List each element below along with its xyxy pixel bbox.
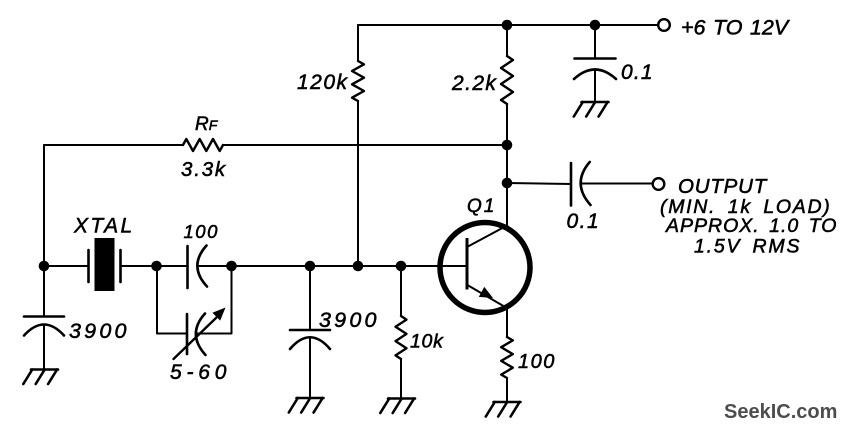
- wire: 3900 (mid) cap to ground: [309, 339, 311, 399]
- svg-text:2.2k: 2.2k: [451, 72, 497, 95]
- svg-text:3900: 3900: [319, 308, 380, 332]
- svg-text:5-60: 5-60: [170, 361, 231, 384]
- resistor 10k: [396, 316, 407, 359]
- junction dot: rail/2.2k: [502, 20, 513, 31]
- svg-text:APPROX. 1.0 TO: APPROX. 1.0 TO: [665, 215, 837, 237]
- wire: 10k to ground: [400, 359, 402, 399]
- wire: RF feedback left segment: [44, 144, 183, 146]
- junction dot: 10k node: [396, 261, 407, 272]
- crystal XTAL: [89, 238, 121, 291]
- wire: XTAL to node: [121, 265, 157, 267]
- transistor Q1 base bar: [466, 238, 469, 290]
- wire: 100 to ground: [506, 378, 508, 402]
- svg-text:0.1: 0.1: [567, 210, 601, 233]
- wire: 2.2k branch top: [506, 25, 508, 56]
- junction dot: output tee: [502, 178, 513, 189]
- wire: bypass cap to ground: [594, 69, 596, 102]
- svg-text:XTAL: XTAL: [73, 215, 135, 238]
- wire: 5-60 loop bottom-right and right: [197, 266, 232, 334]
- wire: left vertical from RF to crystal node: [43, 145, 45, 266]
- ground (10k): [380, 399, 415, 414]
- wire: 3900 (left) cap branch: [43, 266, 45, 316]
- capacitor 3900 (mid): [290, 330, 330, 349]
- resistor RF 3.3k: [183, 139, 223, 151]
- transistor Q1 collector line: [467, 225, 508, 247]
- svg-text:3900: 3900: [69, 319, 130, 343]
- svg-text:RF: RF: [195, 114, 219, 135]
- junction dot: crystal right node: [151, 261, 162, 272]
- transistor Q1 emitter arrow: [479, 287, 493, 298]
- transistor Q1 circle: [440, 223, 530, 313]
- wire: 5-60 loop left and bottom-left: [157, 266, 187, 334]
- svg-text:1.5V RMS: 1.5V RMS: [694, 236, 801, 258]
- svg-text:0.1: 0.1: [621, 61, 654, 84]
- resistor 2.2k: [501, 56, 513, 104]
- wire: node to C 100: [157, 265, 188, 267]
- wire: coupling cap to output terminal: [581, 183, 652, 185]
- wire: 120k branch bottom (crosses RF wire, down to base node): [357, 101, 359, 266]
- wire: 3900 (left) cap to ground: [43, 326, 45, 370]
- terminal +V: [658, 19, 670, 31]
- wire: 120k branch top: [357, 25, 359, 61]
- wire: collector node to output node: [506, 145, 508, 183]
- ground (3900 left): [23, 370, 58, 385]
- junction dot: 3900 mid node: [305, 261, 316, 272]
- wire: RF feedback right segment: [223, 144, 507, 146]
- svg-text:10k: 10k: [410, 331, 444, 353]
- svg-text:Q1: Q1: [467, 196, 496, 217]
- junction dot: crystal left node: [39, 261, 50, 272]
- ground (3900 mid): [289, 398, 324, 413]
- arrow of variable capacitor: [174, 308, 226, 360]
- svg-text:OUTPUT: OUTPUT: [678, 175, 768, 198]
- junction dot: collector/RF: [502, 140, 513, 151]
- wire: 2.2k bottom to collector node: [506, 104, 508, 145]
- junction dot: rail/0.1: [590, 20, 601, 31]
- junction dot: cap/trimmer node: [226, 261, 237, 272]
- capacitor 0.1 (output coupling): [571, 162, 591, 206]
- svg-text:100: 100: [518, 351, 556, 373]
- svg-text:120k: 120k: [297, 71, 349, 94]
- svg-text:3.3k: 3.3k: [181, 158, 227, 181]
- wire: +V top rail: [358, 24, 658, 26]
- wire: node to XTAL: [44, 265, 88, 267]
- junction dot: 120k base node: [353, 261, 364, 272]
- svg-text:SeekIC.com: SeekIC.com: [724, 401, 837, 423]
- ground (100 emitter): [486, 402, 521, 417]
- ground (0.1 bypass): [574, 102, 609, 117]
- wire: Q1 emitter down: [506, 309, 508, 337]
- svg-text:100: 100: [184, 221, 219, 242]
- wire: C 100 to base wire run: [198, 265, 468, 267]
- svg-text:+6 TO 12V: +6 TO 12V: [681, 16, 791, 40]
- variable capacitor 5-60: [187, 314, 206, 356]
- wire: output node down to Q1 collector: [506, 183, 508, 226]
- capacitor 0.1 (bypass): [574, 59, 616, 80]
- wire: 3900 (mid) cap branch: [309, 266, 311, 330]
- wire: output node to coupling cap: [507, 183, 571, 184]
- capacitor 3900 (left): [24, 317, 64, 336]
- transistor Q1 emitter line: [467, 285, 507, 308]
- capacitor 100: [188, 246, 208, 289]
- terminal OUTPUT: [653, 178, 665, 190]
- wire: bypass 0.1 cap branch: [594, 25, 596, 58]
- resistor 120k: [352, 61, 364, 101]
- wire: 10k branch: [400, 266, 402, 316]
- resistor 100 (emitter): [501, 337, 513, 378]
